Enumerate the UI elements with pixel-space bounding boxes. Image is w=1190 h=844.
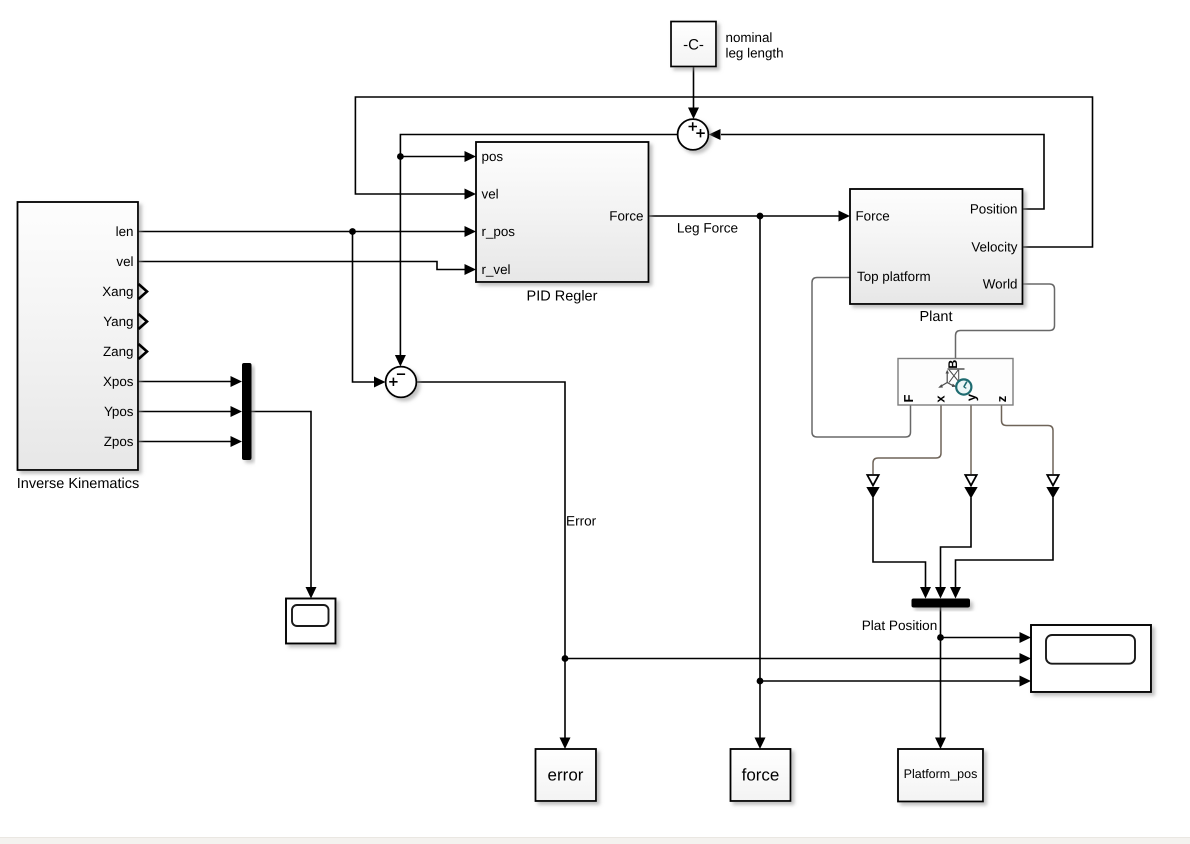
sum U2 (lower): +- subtractor (386, 367, 417, 398)
svg-text:Ypos: Ypos (104, 404, 134, 419)
svg-text:Error: Error (566, 514, 597, 529)
sensor T1: physical-to-signal triangles (867, 475, 878, 486)
svg-text:Xpos: Xpos (103, 374, 134, 389)
wire: sum2 output (Error) to error block (417, 382, 566, 738)
scope S2: large scope (1031, 625, 1151, 692)
wire: sensor3 output to mux2 (956, 498, 1054, 588)
svg-text:PID Regler: PID Regler (527, 289, 598, 305)
wire: physical connection Top platform to body F port (812, 278, 911, 438)
svg-text:leg length: leg length (726, 46, 784, 61)
body block: platform body with sensor ports (898, 359, 1013, 406)
wire: sum1 output left then down to junction and sum2 top input (400, 135, 677, 356)
subsystem: Inverse Kinematics (18, 202, 139, 470)
svg-text:len: len (116, 224, 134, 239)
wire: Inverse Kinematics vel to PID r_vel (with jog) (138, 262, 465, 270)
port marker: Zang unconnected output (139, 344, 148, 359)
svg-text:Plat Position: Plat Position (862, 618, 938, 633)
svg-text:force: force (742, 766, 780, 785)
outport block: Platform_pos (898, 749, 983, 802)
svg-text:Velocity: Velocity (971, 240, 1017, 255)
wire: physical connection body y port to sensor2 (970, 405, 972, 474)
svg-text:World: World (983, 277, 1018, 292)
subsystem: PID Regler (476, 142, 649, 282)
svg-text:Zang: Zang (103, 344, 134, 359)
scope S1: small scope (286, 599, 336, 644)
svg-text:Leg Force: Leg Force (677, 221, 738, 236)
wire: branch from len line down to sum2 left input (353, 232, 375, 383)
sum U1 (top): ++ adder (678, 119, 709, 150)
wire: constant -C- to sum1 top (693, 67, 695, 109)
svg-text:r_pos: r_pos (482, 224, 516, 239)
wire: Zpos to mux1 (138, 441, 231, 443)
wire: force branch to scope2 input 3 (760, 680, 1020, 682)
wire: mux1 output to scope1 (252, 412, 312, 588)
svg-text:Force: Force (856, 209, 890, 224)
wire: Inverse Kinematics len to PID r_pos (138, 231, 465, 233)
port marker: Xang unconnected output (139, 284, 148, 299)
wire: force branch down to force block (759, 216, 761, 738)
svg-text:Platform_pos: Platform_pos (904, 767, 978, 781)
wire: physical connection Plant World to body B port (956, 284, 1055, 359)
svg-text:Force: Force (609, 209, 643, 224)
outport block: force (731, 749, 791, 801)
svg-text:F: F (901, 394, 916, 402)
svg-text:Yang: Yang (103, 314, 133, 329)
wire: Error branch to scope2 input 2 (565, 658, 1020, 660)
wire: Plant Velocity feedback to PID vel input (355, 97, 1092, 247)
node: junction on Error line (562, 655, 569, 662)
wire: sensor1 output to mux2 (873, 498, 926, 588)
wire: branch to PID pos input (400, 156, 465, 158)
constant C1: -C- (nominal leg length) (671, 22, 716, 67)
svg-text:r_vel: r_vel (482, 262, 511, 277)
wire: physical connection body x port to sensor1 (873, 405, 941, 474)
wire: mux2 output down to Platform_pos block (940, 608, 942, 739)
svg-text:Inverse Kinematics: Inverse Kinematics (17, 476, 140, 492)
svg-text:x: x (933, 395, 948, 403)
svg-text:pos: pos (482, 149, 504, 164)
wire: physical connection body z port to sensor3 (1002, 405, 1054, 474)
port marker: Yang unconnected output (139, 314, 148, 329)
mux M1: vertical mux bar (242, 363, 252, 460)
svg-text:vel: vel (482, 187, 499, 202)
icon: clock (956, 379, 971, 394)
wire: Plant Position feedback to sum1 right input (721, 135, 1044, 210)
svg-text:vel: vel (116, 254, 133, 269)
svg-text:Xang: Xang (102, 284, 133, 299)
svg-text:nominal: nominal (726, 30, 773, 45)
mux M2: horizontal mux bar (Plat Position) (912, 599, 971, 608)
svg-text:Plant: Plant (919, 309, 952, 325)
svg-text:error: error (548, 766, 584, 785)
icon: coordinate axes (941, 369, 965, 388)
wire: Plat Position branch to scope2 input 1 (941, 637, 1021, 639)
wire: Ypos to mux1 (138, 411, 231, 413)
outport block: error (536, 749, 597, 801)
subsystem: Plant (850, 189, 1023, 304)
sensor T2: physical-to-signal triangles (965, 475, 976, 486)
node: junction on sum1 output branch (pos) (397, 153, 404, 160)
svg-text:Position: Position (970, 202, 1018, 217)
svg-text:-C-: -C- (683, 37, 704, 54)
sensor T3: physical-to-signal triangles (1047, 475, 1058, 486)
svg-text:z: z (994, 395, 1009, 402)
wire: sensor2 output to mux2 (941, 498, 972, 588)
wire: Xpos to mux1 (138, 381, 231, 383)
node: junction on force branch (757, 678, 764, 685)
node: junction on len line (349, 228, 356, 235)
svg-text:B: B (946, 360, 960, 369)
svg-text:Zpos: Zpos (104, 434, 134, 449)
wire: PID Force output to Plant Force input (Leg Force) (649, 215, 840, 217)
node: junction on Leg Force line (757, 213, 764, 220)
node: junction on Plat Position line (937, 634, 944, 641)
svg-text:Top platform: Top platform (857, 269, 931, 284)
